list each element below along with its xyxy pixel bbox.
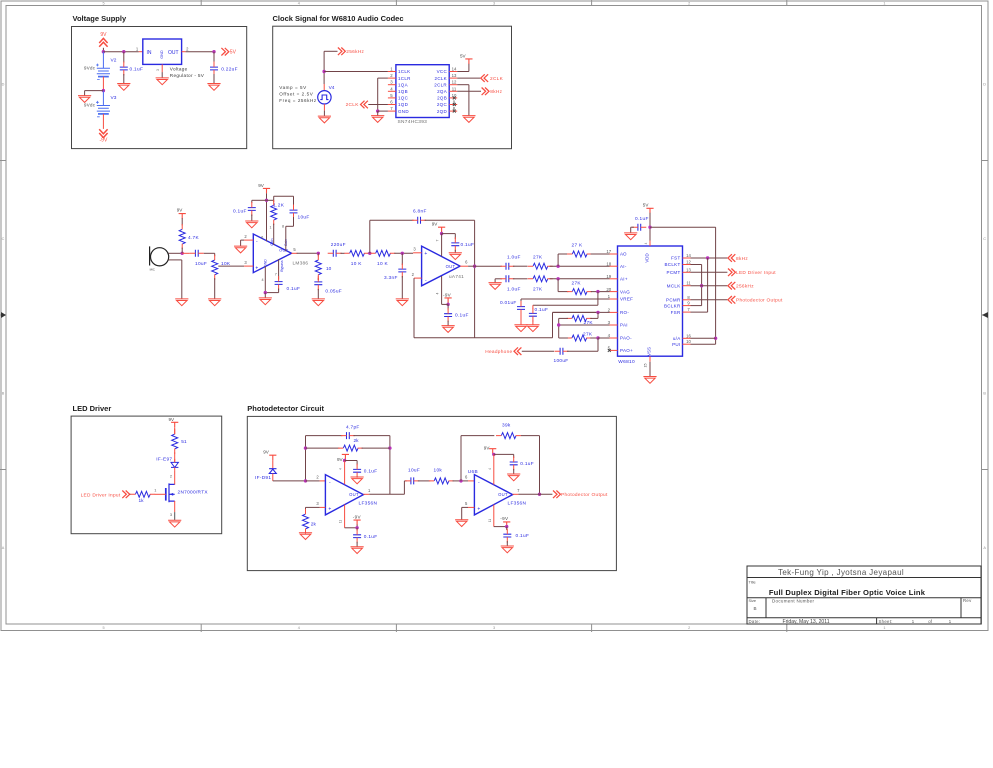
svg-text:2: 2 (608, 308, 611, 313)
svg-text:4: 4 (488, 468, 492, 470)
svg-text:-9V: -9V (443, 293, 452, 298)
svg-text:Full Duplex Digital Fiber Opti: Full Duplex Digital Fiber Optic Voice Li… (769, 588, 926, 597)
svg-text:PAO-: PAO- (620, 336, 632, 341)
svg-text:8: 8 (282, 225, 284, 229)
svg-text:1k: 1k (139, 498, 145, 504)
svg-text:27K: 27K (533, 287, 543, 293)
svg-text:2: 2 (390, 73, 393, 78)
svg-text:51: 51 (181, 439, 187, 445)
svg-text:2: 2 (688, 626, 690, 630)
svg-text:5V: 5V (643, 203, 650, 208)
svg-text:6: 6 (465, 260, 468, 265)
svg-text:Photodector Output: Photodector Output (561, 492, 608, 498)
svg-text:2: 2 (316, 475, 319, 480)
svg-text:LF356N: LF356N (359, 500, 378, 506)
svg-text:12: 12 (686, 260, 691, 265)
svg-text:8: 8 (687, 295, 690, 300)
svg-text:6.8nF: 6.8nF (413, 208, 427, 214)
svg-text:12: 12 (452, 80, 457, 85)
svg-text:3: 3 (493, 626, 495, 630)
svg-text:Date:: Date: (749, 619, 761, 624)
svg-text:0.1uF: 0.1uF (516, 533, 530, 539)
svg-text:10uF: 10uF (195, 261, 207, 267)
svg-text:0.1uF: 0.1uF (635, 216, 649, 222)
svg-text:1CLR: 1CLR (398, 76, 411, 81)
svg-text:BCLKT: BCLKT (664, 262, 680, 267)
svg-text:PCMT: PCMT (667, 270, 681, 275)
svg-text:1QB: 1QB (398, 89, 408, 94)
svg-text:7: 7 (275, 272, 277, 276)
svg-text:1QA: 1QA (398, 82, 408, 87)
svg-text:4: 4 (436, 292, 440, 294)
svg-text:3.3nF: 3.3nF (384, 275, 398, 281)
svg-text:3: 3 (390, 80, 393, 85)
svg-text:1: 1 (136, 47, 139, 52)
svg-text:5: 5 (103, 1, 105, 5)
svg-text:5V: 5V (230, 50, 237, 56)
svg-text:4: 4 (298, 1, 300, 5)
svg-text:2: 2 (244, 234, 247, 239)
svg-text:10: 10 (686, 339, 691, 344)
svg-text:5: 5 (293, 247, 296, 252)
svg-text:-9V: -9V (100, 138, 108, 144)
svg-text:MIC: MIC (150, 267, 155, 271)
svg-text:V2: V2 (111, 58, 117, 64)
svg-text:OUT: OUT (446, 264, 456, 269)
svg-text:2CLK: 2CLK (435, 76, 447, 81)
svg-text:Rev: Rev (963, 598, 972, 603)
svg-text:IF-E97: IF-E97 (156, 456, 172, 462)
svg-text:AI-: AI- (620, 264, 627, 269)
svg-text:OUT: OUT (349, 492, 359, 497)
svg-text:11: 11 (686, 281, 691, 286)
svg-text:2: 2 (170, 473, 172, 478)
svg-text:0.22uF: 0.22uF (221, 66, 238, 72)
svg-text:GND: GND (263, 259, 267, 267)
svg-text:+: + (255, 266, 258, 272)
svg-text:5V: 5V (460, 53, 467, 58)
svg-text:0.1uF: 0.1uF (461, 242, 475, 248)
svg-text:6: 6 (390, 100, 393, 105)
svg-text:9Vdc: 9Vdc (84, 65, 96, 70)
svg-text:Bypass: Bypass (280, 260, 284, 271)
svg-text:2QD: 2QD (437, 109, 448, 114)
svg-text:256kHz: 256kHz (736, 284, 754, 290)
svg-text:Regulator - 5V: Regulator - 5V (170, 73, 205, 78)
svg-text:4: 4 (261, 278, 263, 282)
svg-text:17: 17 (606, 249, 611, 254)
svg-text:2QC: 2QC (437, 102, 448, 107)
svg-text:RO-: RO- (620, 310, 629, 315)
svg-text:3: 3 (156, 69, 160, 71)
svg-text:5: 5 (103, 626, 105, 630)
svg-text:3: 3 (413, 247, 416, 252)
svg-text:9V: 9V (484, 445, 491, 450)
svg-text:LED Driver Input: LED Driver Input (81, 492, 121, 498)
svg-text:10 K: 10 K (351, 261, 363, 267)
svg-text:27 K: 27 K (572, 242, 584, 248)
svg-text:3: 3 (244, 260, 247, 265)
svg-text:0.1uF: 0.1uF (520, 461, 534, 467)
svg-text:GND: GND (160, 50, 164, 59)
svg-text:Size: Size (749, 598, 757, 603)
svg-text:GND: GND (398, 109, 409, 114)
svg-text:VCC: VCC (437, 69, 448, 74)
svg-text:of: of (928, 619, 932, 624)
svg-text:-9V: -9V (500, 516, 509, 521)
svg-text:18: 18 (606, 261, 611, 266)
svg-text:0.1uF: 0.1uF (287, 286, 301, 292)
svg-text:0.1uF: 0.1uF (364, 468, 378, 474)
svg-text:2QB: 2QB (437, 96, 447, 101)
svg-text:-: - (256, 239, 258, 245)
svg-text:4: 4 (608, 333, 611, 338)
svg-text:1QD: 1QD (398, 102, 409, 107)
svg-text:+: + (424, 251, 427, 257)
svg-text:1.2K: 1.2K (273, 203, 285, 209)
svg-text:9V: 9V (432, 222, 439, 227)
svg-text:2: 2 (412, 272, 415, 277)
svg-text:Vamp = 5V: Vamp = 5V (279, 85, 307, 90)
svg-text:Freq = 256kHz: Freq = 256kHz (279, 98, 317, 103)
svg-text:AI+: AI+ (620, 277, 628, 282)
svg-text:5: 5 (465, 501, 468, 506)
svg-text:A: A (983, 546, 986, 550)
svg-text:16: 16 (686, 333, 691, 338)
svg-text:10k: 10k (434, 468, 443, 474)
svg-text:1CLK: 1CLK (398, 69, 410, 74)
svg-text:BCLKR: BCLKR (664, 303, 681, 308)
svg-text:4: 4 (298, 626, 300, 630)
svg-text:8kHz: 8kHz (490, 89, 502, 95)
svg-text:4: 4 (390, 86, 393, 91)
svg-text:1: 1 (270, 226, 272, 230)
svg-text:0.1uF: 0.1uF (233, 209, 247, 215)
svg-text:9V: 9V (258, 183, 265, 188)
svg-text:0.1uF: 0.1uF (364, 534, 378, 540)
svg-text:0.1uF: 0.1uF (130, 66, 144, 72)
svg-text:PUI: PUI (672, 342, 680, 347)
svg-text:D: D (2, 83, 5, 87)
svg-text:4: 4 (339, 468, 343, 470)
svg-text:Tek-Fung Yip , Jyotsna Jeyapau: Tek-Fung Yip , Jyotsna Jeyapaul (778, 568, 904, 577)
svg-text:Sheet:: Sheet: (879, 619, 893, 624)
svg-text:+: + (477, 506, 480, 512)
svg-text:V4: V4 (329, 85, 335, 91)
svg-text:10: 10 (326, 266, 332, 272)
svg-text:0.05uF: 0.05uF (325, 288, 342, 294)
svg-text:Photodetector Circuit: Photodetector Circuit (247, 404, 324, 413)
svg-text:19: 19 (606, 274, 611, 279)
svg-text:LM386: LM386 (293, 260, 309, 265)
svg-text:SN74HC393: SN74HC393 (398, 119, 428, 125)
svg-text:-9V: -9V (353, 515, 362, 520)
svg-text:OUT: OUT (168, 50, 179, 56)
svg-text:1: 1 (154, 488, 156, 493)
svg-text:Document Number: Document Number (772, 599, 814, 604)
svg-text:0.1uF: 0.1uF (455, 313, 469, 319)
svg-text:1: 1 (608, 294, 611, 299)
svg-text:V3: V3 (111, 95, 117, 101)
svg-text:27K: 27K (533, 255, 543, 261)
svg-text:27K: 27K (583, 331, 593, 337)
svg-text:9V: 9V (337, 457, 344, 462)
svg-text:11: 11 (339, 520, 343, 524)
svg-text:PCMR: PCMR (666, 298, 681, 303)
svg-text:Voltage Supply: Voltage Supply (73, 14, 127, 23)
svg-text:2QA: 2QA (437, 89, 447, 94)
svg-text:VSS: VSS (646, 347, 651, 356)
svg-text:39k: 39k (502, 422, 511, 428)
svg-text:B: B (753, 606, 756, 611)
svg-text:2CLR: 2CLR (434, 82, 447, 87)
svg-text:9V: 9V (263, 450, 270, 455)
svg-text:Clock Signal for W6810 Audio C: Clock Signal for W6810 Audio Codec (273, 14, 404, 23)
svg-text:256kHz: 256kHz (346, 49, 364, 55)
svg-text:-: - (478, 479, 480, 485)
svg-text:7: 7 (687, 307, 690, 312)
svg-text:3: 3 (316, 501, 319, 506)
svg-text:10uF: 10uF (408, 468, 420, 474)
svg-text:14: 14 (686, 253, 691, 258)
svg-text:Friday, May 13, 2011: Friday, May 13, 2011 (782, 619, 829, 625)
svg-text:-: - (329, 479, 331, 485)
svg-text:11: 11 (488, 519, 492, 523)
svg-text:VAG: VAG (620, 289, 630, 294)
svg-text:6: 6 (465, 475, 468, 480)
svg-text:4.7pF: 4.7pF (346, 425, 360, 431)
svg-text:MCLK: MCLK (667, 283, 681, 288)
svg-text:uA741: uA741 (449, 274, 464, 279)
svg-text:2N7000/RTX: 2N7000/RTX (178, 490, 209, 496)
svg-text:10: 10 (452, 93, 457, 98)
svg-text:PAO+: PAO+ (620, 348, 633, 353)
svg-text:1: 1 (883, 1, 885, 5)
svg-text:9V: 9V (100, 32, 107, 38)
svg-text:0.1uF: 0.1uF (535, 307, 549, 313)
svg-text:A: A (2, 546, 5, 550)
svg-text:9: 9 (687, 301, 690, 306)
svg-text:11: 11 (452, 86, 457, 91)
svg-text:1.0uF: 1.0uF (507, 255, 521, 261)
svg-text:2: 2 (688, 1, 690, 5)
svg-text:8kHz: 8kHz (736, 256, 748, 262)
svg-text:1: 1 (912, 619, 915, 624)
svg-text:1: 1 (390, 67, 393, 72)
svg-text:0.01uF: 0.01uF (500, 300, 517, 306)
svg-text:Photodector Output: Photodector Output (736, 298, 783, 304)
svg-text:B: B (983, 392, 986, 396)
svg-text:1.0uF: 1.0uF (507, 287, 521, 293)
svg-text:20: 20 (606, 287, 611, 292)
svg-text:C: C (2, 237, 5, 241)
svg-text:LED Driver: LED Driver (73, 404, 112, 413)
svg-text:10 K: 10 K (377, 261, 389, 267)
svg-text:Headphone: Headphone (485, 349, 512, 355)
svg-text:1: 1 (949, 619, 952, 624)
svg-text:15: 15 (643, 364, 647, 368)
svg-text:OUT: OUT (498, 492, 508, 497)
svg-text:3: 3 (493, 1, 495, 5)
svg-text:9Vdc: 9Vdc (84, 103, 96, 108)
svg-text:LF356N: LF356N (508, 500, 527, 506)
svg-text:10uF: 10uF (298, 215, 310, 221)
svg-text:27K: 27K (572, 281, 582, 287)
svg-text:7: 7 (517, 488, 520, 493)
svg-text:14: 14 (452, 67, 457, 72)
svg-text:7: 7 (390, 106, 393, 111)
svg-text:Voltage: Voltage (170, 66, 188, 71)
svg-text:D: D (983, 83, 986, 87)
svg-text:4.7K: 4.7K (188, 235, 200, 241)
svg-text:U6B: U6B (468, 469, 478, 475)
svg-text:Title: Title (749, 580, 756, 585)
svg-text:100uF: 100uF (554, 358, 569, 364)
svg-text:PAI: PAI (620, 323, 628, 328)
svg-text:+: + (328, 506, 331, 512)
svg-text:2k: 2k (311, 521, 317, 527)
svg-text:7: 7 (436, 239, 440, 241)
svg-text:6: 6 (261, 235, 263, 239)
svg-text:4: 4 (644, 242, 648, 244)
svg-text:Offset = 2.5V: Offset = 2.5V (279, 92, 313, 97)
svg-text:FST: FST (671, 256, 680, 261)
svg-text:3: 3 (608, 320, 611, 325)
svg-text:OUT: OUT (279, 248, 289, 253)
svg-text:VDD: VDD (645, 253, 650, 262)
svg-text:W6810: W6810 (618, 359, 635, 365)
svg-text:1QC: 1QC (398, 96, 409, 101)
svg-text:13: 13 (452, 73, 457, 78)
svg-text:FSR: FSR (671, 310, 681, 315)
svg-text:1: 1 (883, 626, 885, 630)
svg-text:13: 13 (686, 267, 691, 272)
svg-text:220uF: 220uF (331, 242, 346, 248)
svg-text:VREF: VREF (620, 297, 633, 302)
svg-text:2CLK: 2CLK (346, 102, 360, 108)
svg-text:2CLK: 2CLK (490, 76, 504, 82)
svg-text:2k: 2k (354, 438, 360, 444)
svg-text:IN: IN (147, 50, 152, 56)
svg-text:9V: 9V (177, 207, 184, 212)
svg-text:3: 3 (170, 512, 172, 517)
svg-text:2: 2 (186, 47, 189, 52)
svg-text:AO: AO (620, 252, 627, 257)
svg-text:LED Driver Input: LED Driver Input (736, 270, 776, 276)
svg-text:u/A: u/A (673, 336, 681, 341)
svg-text:5: 5 (390, 93, 393, 98)
svg-text:C: C (983, 237, 986, 241)
svg-text:1: 1 (368, 488, 371, 493)
svg-text:B: B (2, 392, 5, 396)
svg-text:9V: 9V (169, 417, 176, 422)
svg-text:IF-D91: IF-D91 (255, 475, 271, 481)
